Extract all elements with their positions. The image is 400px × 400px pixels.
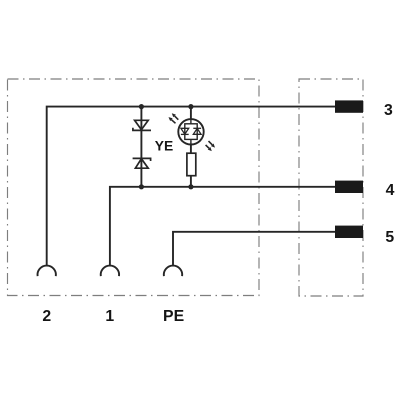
LED light arrow 3	[209, 141, 216, 148]
resistor R1	[187, 153, 196, 176]
wire zener branch	[140, 107, 142, 187]
svg-text:3: 3	[384, 102, 393, 119]
svg-text:1: 1	[105, 308, 114, 325]
contact block 4	[335, 181, 363, 193]
pin contact PE	[164, 266, 182, 277]
wire LED branch lower	[190, 144, 192, 153]
svg-text:PE: PE	[163, 308, 184, 325]
svg-text:4: 4	[386, 182, 395, 199]
svg-text:YE: YE	[155, 138, 173, 153]
junction dot bottom-right	[188, 184, 193, 189]
svg-text:5: 5	[385, 229, 394, 246]
pin contact 1	[101, 266, 119, 277]
svg-text:2: 2	[42, 308, 51, 325]
LED U1 (yellow, bipolar)	[178, 119, 203, 144]
wire LED branch upper	[190, 107, 192, 120]
contact block 5	[335, 226, 363, 238]
contact block 3	[335, 100, 363, 112]
zener diode D1	[133, 120, 151, 130]
pin contact 2	[38, 266, 56, 277]
zener diode D2	[133, 158, 151, 168]
junction dot top-right	[188, 104, 193, 109]
enclosure border right (dash-dot)	[299, 79, 363, 296]
junction dot bottom-left	[139, 184, 144, 189]
LED light arrow 4	[206, 145, 212, 151]
wire pin 1 to contact 4	[110, 187, 335, 265]
wire pin PE to contact 5	[173, 232, 335, 265]
LED light arrow 2	[169, 117, 176, 123]
wire pin 2 to contact 3	[47, 107, 335, 265]
wire resistor to pin-1 net	[190, 176, 192, 187]
LED light arrow 1	[172, 113, 179, 120]
junction dot top-left	[139, 104, 144, 109]
enclosure border left (dash-dot)	[8, 79, 260, 296]
